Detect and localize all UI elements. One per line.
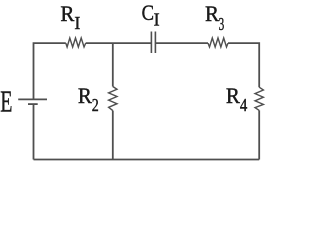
wire battery negative to bottom-left corner: [33, 104, 35, 159]
svg-text:3: 3: [219, 14, 225, 34]
label R3: [205, 1, 224, 34]
svg-text:R: R: [226, 83, 240, 108]
svg-text:E: E: [0, 85, 12, 119]
resistor R4: [255, 87, 263, 110]
svg-text:2: 2: [92, 95, 99, 115]
label C1: [142, 0, 160, 30]
svg-text:R: R: [78, 83, 92, 108]
capacitor C1: [151, 32, 155, 54]
resistor R2: [109, 87, 117, 111]
wire middle branch top (node to R2): [112, 43, 114, 86]
wire R3 to top-right corner, down to R4: [228, 43, 259, 87]
battery E (negative short plate): [28, 103, 38, 105]
wire middle branch bottom (R2 to bottom rail): [112, 111, 114, 160]
wire C1 to R3: [155, 42, 208, 44]
wire R1 to C1 (node above R2): [86, 42, 152, 44]
label R4: [226, 83, 247, 115]
wire R4 to bottom-right corner: [258, 110, 260, 159]
svg-text:R: R: [205, 1, 219, 26]
svg-text:I: I: [74, 13, 80, 33]
resistor R3: [208, 38, 228, 47]
label R2: [78, 83, 99, 115]
svg-text:4: 4: [240, 95, 247, 115]
svg-text:C: C: [142, 0, 154, 25]
resistor R1: [66, 38, 86, 47]
wire bottom rail: [34, 159, 260, 161]
battery E (positive long plate): [18, 98, 47, 100]
svg-text:I: I: [154, 10, 160, 30]
label R1: [60, 1, 80, 33]
svg-text:R: R: [60, 1, 74, 26]
wire top-left segment (left corner to R1): [34, 43, 66, 99]
